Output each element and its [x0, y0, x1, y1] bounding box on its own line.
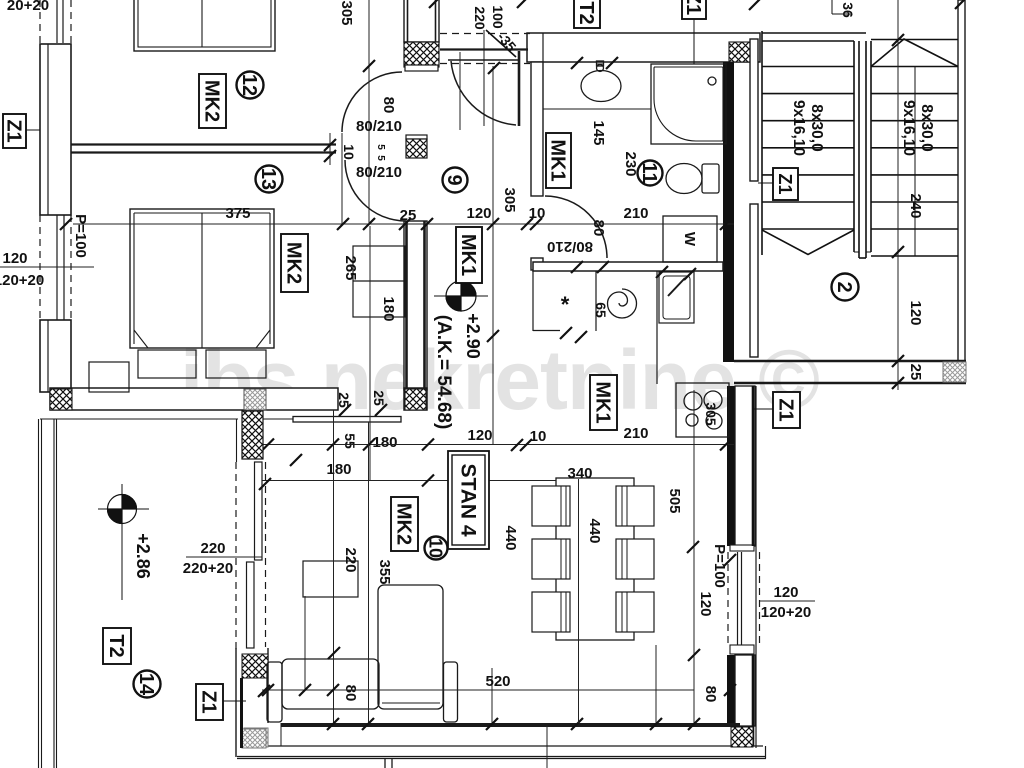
kitchen sink — [659, 272, 694, 323]
door arc room 12 (80/210) — [342, 72, 402, 132]
dimension line 375/25/120/10/210 — [73, 223, 734, 225]
svg-text:305: 305 — [338, 0, 355, 25]
svg-text:Z1: Z1 — [197, 690, 219, 713]
svg-text:80/210: 80/210 — [547, 238, 593, 255]
svg-text:100: 100 — [490, 5, 506, 29]
east window (P=100) — [728, 552, 760, 645]
svg-text:240: 240 — [907, 193, 924, 218]
svg-text:STAN 4: STAN 4 — [457, 463, 480, 536]
svg-text:120: 120 — [697, 591, 714, 616]
shower — [651, 64, 726, 144]
crosshatch block west wall — [242, 654, 268, 678]
west wall post upper — [40, 44, 71, 215]
circled 2 — [832, 274, 859, 301]
extension line hall — [459, 52, 461, 130]
svg-text:P=100: P=100 — [72, 214, 89, 258]
ticks bathroom south wall — [571, 261, 583, 273]
west living wall inner thick line — [240, 678, 243, 748]
svg-text:120: 120 — [467, 427, 492, 444]
svg-text:375: 375 — [225, 205, 250, 222]
dining table — [556, 478, 634, 640]
ticks bathroom north wall — [571, 57, 583, 69]
svg-text:120+20: 120+20 — [0, 272, 44, 289]
svg-text:Z1: Z1 — [682, 0, 704, 15]
vertical wall hall-bedroom13 — [404, 221, 427, 390]
svg-text:145: 145 — [590, 120, 607, 145]
stairwell east wall — [958, 0, 965, 361]
circled 12 — [237, 72, 264, 99]
svg-text:5: 5 — [375, 144, 386, 150]
svg-text:Z1: Z1 — [774, 398, 796, 421]
svg-text:(A.K.= 54.68): (A.K.= 54.68) — [433, 315, 454, 430]
crosshatch block south wall right end — [731, 727, 753, 747]
toilet — [666, 164, 719, 194]
wall thickness dim 10 — [329, 133, 331, 165]
svg-text:220: 220 — [342, 547, 359, 572]
svg-text:13: 13 — [257, 168, 279, 190]
sliding door leaf — [248, 417, 401, 423]
nightstand — [89, 362, 129, 392]
living room east wall lower segment — [727, 655, 735, 726]
entry door arc — [451, 61, 516, 125]
dim extension line table — [578, 479, 580, 723]
svg-text:55: 55 — [342, 433, 358, 449]
svg-text:180: 180 — [380, 296, 397, 321]
bathroom door arc (80/210) — [545, 196, 607, 258]
stair middle stringers — [854, 41, 871, 258]
bathroom south wall — [533, 262, 723, 271]
svg-text:80/210: 80/210 — [356, 164, 402, 181]
dim 220 / 220+20 — [186, 556, 262, 558]
label T2 terrace — [103, 628, 131, 664]
svg-text:10: 10 — [426, 538, 446, 558]
extension lines wardrobe — [369, 226, 371, 480]
svg-text:80/210: 80/210 — [356, 118, 402, 135]
dining chairs — [532, 486, 654, 632]
svg-text:MK1: MK1 — [546, 139, 568, 181]
living room east wall upper segment — [727, 386, 735, 546]
svg-text:20+20: 20+20 — [7, 0, 49, 14]
svg-text:MK2: MK2 — [200, 80, 222, 122]
label MK1 hall — [456, 227, 482, 283]
svg-text:Z1: Z1 — [775, 173, 795, 194]
svg-text:120: 120 — [907, 300, 924, 325]
svg-text:25: 25 — [400, 207, 417, 224]
svg-text:120: 120 — [466, 205, 491, 222]
svg-text:220+20: 220+20 — [183, 560, 233, 577]
west wall upper glazing — [40, 0, 71, 45]
svg-text:265: 265 — [342, 255, 359, 280]
stairwell south wall — [734, 361, 966, 383]
svg-text:9x16,10: 9x16,10 — [900, 100, 917, 156]
tv cabinet — [303, 561, 358, 597]
circled 11 — [638, 161, 663, 186]
svg-text:2: 2 — [833, 281, 855, 292]
ticks on south wall — [327, 718, 339, 730]
circled 10 — [425, 537, 448, 560]
svg-text:+2.90: +2.90 — [463, 313, 483, 359]
svg-text:12: 12 — [238, 74, 260, 96]
svg-text:340: 340 — [567, 465, 592, 482]
living room south wall — [237, 723, 766, 759]
svg-text:5: 5 — [375, 155, 386, 161]
label T2 top — [574, 0, 600, 28]
svg-text:80: 80 — [590, 220, 607, 237]
east window head cap — [730, 545, 754, 551]
living room west wall — [236, 648, 268, 757]
terrace sliding glass door (dashed) — [236, 462, 266, 649]
svg-text:MK1: MK1 — [591, 381, 613, 423]
label MK1 bathroom — [546, 133, 571, 188]
kitchen counter — [533, 271, 657, 384]
stair right flight treads — [871, 39, 958, 256]
extension lines top center — [342, 0, 369, 224]
svg-text:305: 305 — [501, 187, 518, 212]
ticks top edge — [429, 0, 529, 8]
stipple block stair SE corner — [943, 362, 966, 382]
svg-text:120: 120 — [2, 250, 27, 267]
circled 14 — [134, 671, 161, 698]
svg-text:10: 10 — [530, 428, 547, 445]
extension lines living — [305, 390, 694, 768]
dim line y=690 — [262, 689, 694, 691]
label Z1 east — [773, 392, 800, 428]
label MK2 room13 — [281, 234, 308, 292]
svg-text:210: 210 — [623, 425, 648, 442]
svg-text:80: 80 — [342, 685, 359, 702]
label Z1 stair — [773, 168, 798, 200]
svg-text:W: W — [681, 232, 698, 247]
svg-text:9: 9 — [443, 174, 465, 185]
arrow tick top — [749, 0, 761, 10]
tick sliding door — [259, 478, 271, 490]
stipple block south wall left end — [244, 728, 268, 747]
elevation marker +2.90 — [434, 281, 488, 311]
dim line y=444 — [262, 444, 734, 446]
bathroom east wall / kitchen east wall — [723, 62, 734, 362]
svg-text:505: 505 — [666, 488, 683, 513]
bathroom west wall — [531, 62, 543, 270]
svg-text:MK2: MK2 — [282, 242, 304, 284]
svg-text:440: 440 — [502, 525, 519, 550]
tick entry — [488, 62, 500, 74]
entry landing lines — [440, 34, 530, 64]
dim line y=480 — [262, 480, 556, 482]
label MK2 room12 — [199, 74, 226, 128]
terrace west parapet — [39, 419, 239, 768]
mullion below south wall — [385, 759, 392, 768]
bathroom sink — [543, 61, 651, 109]
svg-text:355: 355 — [376, 559, 393, 584]
stair dim line — [897, 0, 899, 390]
bed room 12 — [134, 0, 275, 51]
svg-text:9x16,10: 9x16,10 — [790, 100, 807, 156]
svg-text:210: 210 — [623, 205, 648, 222]
svg-text:220: 220 — [200, 540, 225, 557]
hatched wall block mid (door jamb) — [406, 135, 427, 158]
boiler spiral — [608, 289, 637, 318]
south wall of bedroom 13 / north wall of living room — [50, 388, 427, 410]
svg-text:180: 180 — [372, 434, 397, 451]
circled 9 — [443, 168, 468, 193]
svg-text:10: 10 — [529, 205, 546, 222]
washing machine — [663, 216, 717, 262]
svg-text:220: 220 — [472, 6, 488, 30]
sofa — [267, 585, 458, 722]
bed room 13 — [130, 209, 274, 348]
svg-text:*: * — [561, 292, 570, 317]
svg-text:14: 14 — [135, 673, 157, 696]
svg-text:MK1: MK1 — [457, 234, 479, 276]
svg-text:10: 10 — [341, 144, 357, 160]
label STAN 4 — [448, 451, 489, 549]
stove — [676, 383, 729, 437]
svg-text:25: 25 — [371, 390, 387, 406]
stipple block west wall — [242, 729, 266, 748]
svg-text:80: 80 — [702, 686, 719, 703]
svg-text:305: 305 — [703, 402, 719, 426]
hatched wall block top — [404, 42, 439, 71]
svg-text:Z1: Z1 — [2, 119, 24, 142]
cushions below bed — [138, 350, 266, 378]
label MK2 living — [391, 497, 418, 551]
east window sill cap — [730, 645, 754, 654]
crosshatch pier west living wall top — [242, 411, 263, 459]
svg-text:11: 11 — [638, 162, 660, 183]
label Z1 terrace — [196, 684, 223, 720]
interior wall between room 12 and 13 — [71, 145, 336, 153]
upper vertical wall room12/hall — [404, 0, 439, 42]
svg-text:80: 80 — [380, 97, 397, 114]
svg-text:520: 520 — [485, 673, 510, 690]
svg-text:65: 65 — [593, 302, 609, 318]
elevation marker +2.86 — [98, 484, 149, 600]
svg-text:+2.86: +2.86 — [133, 533, 153, 579]
stair left flight treads — [762, 31, 866, 255]
west wall window P=100 — [40, 215, 71, 321]
circled 13 — [256, 166, 283, 193]
stairwell west wall — [750, 39, 758, 357]
svg-text:120+20: 120+20 — [761, 604, 811, 621]
svg-text:440: 440 — [586, 518, 603, 543]
tick sofa line — [328, 647, 340, 659]
svg-text:T2: T2 — [575, 1, 597, 24]
building outer edge east — [756, 386, 766, 759]
svg-text:36: 36 — [840, 2, 856, 18]
dim 120/120+20 east — [760, 600, 815, 602]
dim 120 / 120+20 left — [0, 266, 94, 268]
svg-text:25: 25 — [907, 364, 924, 381]
svg-text:8x30,0: 8x30,0 — [808, 104, 825, 151]
svg-text:180: 180 — [326, 461, 351, 478]
bathroom north wall — [527, 33, 760, 62]
svg-text:120: 120 — [773, 584, 798, 601]
svg-text:MK2: MK2 — [392, 503, 414, 545]
svg-text:T2: T2 — [105, 634, 127, 657]
label Z1 top — [682, 0, 706, 19]
door arc room 13 (80/210) — [345, 160, 406, 221]
tick west wall — [258, 685, 270, 697]
label Z1 west — [3, 114, 26, 148]
wardrobe room 13 — [353, 246, 405, 317]
west wall post lower — [40, 320, 71, 392]
dim line 305 hall — [492, 66, 494, 445]
svg-text:8x30,0: 8x30,0 — [918, 104, 935, 151]
label MK1 kitchen — [590, 375, 617, 430]
